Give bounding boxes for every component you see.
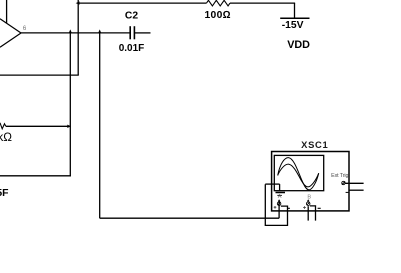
svg-text:C2: C2 bbox=[125, 11, 138, 22]
-15V power rail bar bbox=[280, 17, 309, 19]
wire y=175.8 to left edge bbox=[0, 175, 71, 177]
svg-text:VDD: VDD bbox=[287, 39, 310, 51]
junction arrow node at x=100 bbox=[98, 29, 101, 33]
ground stem bbox=[279, 184, 281, 191]
B minus hook wire bbox=[310, 206, 316, 221]
svg-text:100Ω: 100Ω bbox=[204, 10, 231, 21]
svg-text:5F: 5F bbox=[0, 188, 9, 199]
vertical wire x=100 down bbox=[99, 33, 101, 218]
svg-text:XSC1: XSC1 bbox=[301, 139, 328, 150]
bottom wire to scope channel A bbox=[100, 217, 279, 219]
resistor R zigzag 100ohm bbox=[207, 0, 231, 6]
wire C2 right stub bbox=[135, 32, 151, 34]
A minus hook wire bbox=[265, 184, 287, 225]
B terminal circle bbox=[306, 202, 310, 206]
sine trace upper bbox=[278, 158, 319, 190]
op-amp U1 positive supply pin wire bbox=[6, 0, 8, 23]
svg-text:B: B bbox=[307, 195, 311, 201]
resistor R1 zigzag tail at left edge bbox=[0, 123, 6, 129]
B plus stub wire down bbox=[307, 206, 309, 220]
A plus sign bbox=[274, 206, 277, 209]
wire up to A+ terminal bbox=[278, 200, 280, 218]
junction arrow above A terminal bbox=[278, 199, 281, 201]
svg-text:Ext Trig: Ext Trig bbox=[331, 173, 348, 179]
ground bar 2 bbox=[277, 194, 281, 196]
sine trace lower bbox=[278, 164, 319, 187]
junction arrow node at x=70 bbox=[69, 29, 72, 33]
wire op-amp output to C2 bbox=[21, 32, 130, 34]
oscilloscope XSC1 body bbox=[272, 152, 349, 211]
junction arrow pointing left at top wire start bbox=[76, 1, 80, 4]
capacitor C2 plates bbox=[129, 26, 131, 39]
ground wire into scope bbox=[265, 183, 279, 185]
junction arrow above B terminal bbox=[307, 199, 310, 201]
svg-text:-15V: -15V bbox=[282, 20, 304, 31]
A terminal circle bbox=[277, 202, 281, 206]
scope screen bbox=[274, 155, 323, 190]
junction arrow pointing right at x=70 bbox=[67, 125, 71, 128]
Ext Trig terminal circle bbox=[342, 181, 345, 184]
top wire right segment bbox=[230, 2, 295, 4]
wire to inverting input y=75 bbox=[0, 74, 79, 76]
vertical wire x=70 bbox=[69, 33, 71, 177]
svg-text:6: 6 bbox=[23, 26, 27, 32]
A minus dash bbox=[287, 207, 290, 209]
svg-text:A: A bbox=[278, 194, 282, 200]
wire down to -15V rail bbox=[294, 3, 296, 18]
B plus sign bbox=[303, 206, 306, 209]
vertical wire x=78 from top bbox=[77, 0, 79, 75]
B minus dash bbox=[318, 207, 321, 209]
op-amp U1 (partially off-canvas, output tip) bbox=[0, 19, 21, 47]
svg-text:0.01F: 0.01F bbox=[119, 43, 145, 54]
top feedback wire left segment bbox=[78, 2, 206, 4]
Ext Trig wire stub 1 bbox=[345, 182, 364, 184]
ground bar 1 bbox=[276, 192, 286, 194]
Ext Trig wire stub 2 bbox=[349, 189, 364, 191]
svg-text:kΩ: kΩ bbox=[0, 131, 12, 144]
wire resistor to node bbox=[6, 125, 70, 127]
Ext Trig minus dash bbox=[346, 191, 349, 193]
